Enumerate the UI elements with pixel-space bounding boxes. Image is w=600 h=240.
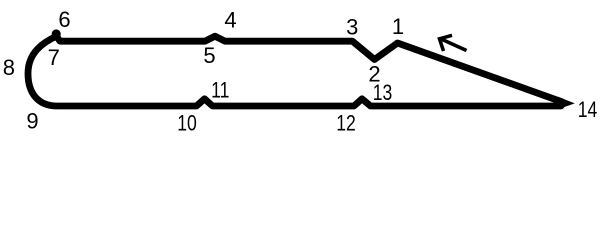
svg-text:11: 11 (211, 79, 229, 103)
svg-text:10: 10 (177, 112, 197, 136)
svg-text:14: 14 (578, 98, 598, 122)
svg-text:7: 7 (48, 45, 60, 70)
svg-text:1: 1 (392, 14, 404, 39)
svg-text:8: 8 (3, 55, 15, 80)
svg-text:12: 12 (336, 112, 356, 136)
svg-text:6: 6 (58, 7, 70, 32)
svg-text:9: 9 (26, 108, 38, 133)
svg-text:3: 3 (346, 14, 358, 39)
svg-text:4: 4 (224, 7, 236, 32)
svg-text:5: 5 (203, 43, 215, 68)
svg-text:13: 13 (373, 81, 393, 105)
